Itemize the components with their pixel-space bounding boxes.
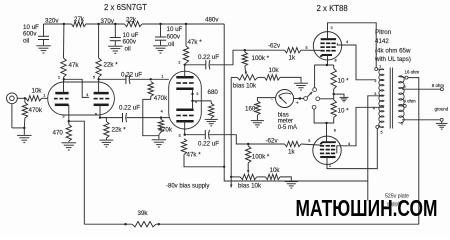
svg-text:10k: 10k xyxy=(269,67,280,74)
svg-text:5: 5 xyxy=(306,46,308,50)
svg-text:470: 470 xyxy=(53,129,64,136)
svg-text:100k *: 100k * xyxy=(252,55,270,62)
svg-text:22k *: 22k * xyxy=(112,127,127,134)
svg-text:8 ohm: 8 ohm xyxy=(432,83,445,88)
svg-text:oil: oil xyxy=(23,37,29,44)
svg-text:5: 5 xyxy=(308,139,310,143)
svg-text:1: 1 xyxy=(161,74,163,78)
svg-text:0.22 uF: 0.22 uF xyxy=(121,72,142,79)
svg-text:4 ohm: 4 ohm xyxy=(404,99,417,104)
svg-text:22k: 22k xyxy=(126,17,137,24)
svg-text:-62v: -62v xyxy=(268,43,281,50)
svg-text:47k *: 47k * xyxy=(188,39,203,46)
svg-text:6: 6 xyxy=(401,122,403,126)
svg-text:8: 8 xyxy=(334,129,336,133)
svg-text:with UL taps): with UL taps) xyxy=(374,56,411,63)
svg-text:3: 3 xyxy=(62,114,64,118)
svg-text:22k *: 22k * xyxy=(104,61,119,68)
svg-text:0-5 mA: 0-5 mA xyxy=(278,125,297,131)
svg-text:3: 3 xyxy=(374,92,376,96)
svg-text:10k: 10k xyxy=(32,88,43,95)
svg-text:4: 4 xyxy=(373,107,375,111)
svg-text:1: 1 xyxy=(43,93,45,97)
svg-text:370v: 370v xyxy=(101,18,115,25)
svg-text:oil: oil xyxy=(168,41,174,48)
svg-text:ground: ground xyxy=(435,106,449,111)
svg-text:2: 2 xyxy=(329,163,331,167)
svg-text:Pitron: Pitron xyxy=(375,29,392,36)
svg-text:2: 2 xyxy=(374,79,376,83)
svg-text:2 x 6SN7GT: 2 x 6SN7GT xyxy=(104,3,147,12)
svg-text:47k *: 47k * xyxy=(187,152,202,159)
svg-text:-62v: -62v xyxy=(266,138,279,145)
svg-text:480v: 480v xyxy=(205,16,219,23)
svg-text:-: - xyxy=(271,96,273,102)
svg-text:3: 3 xyxy=(196,92,198,96)
svg-text:meter: meter xyxy=(278,119,293,125)
svg-text:10k: 10k xyxy=(270,167,281,174)
svg-text:5: 5 xyxy=(179,134,181,138)
svg-text:bias 10k: bias 10k xyxy=(233,82,257,89)
svg-text:600v: 600v xyxy=(167,34,181,41)
svg-text:6: 6 xyxy=(95,112,97,116)
svg-text:27k: 27k xyxy=(74,16,85,23)
svg-text:2: 2 xyxy=(178,61,180,65)
svg-text:1k: 1k xyxy=(289,54,296,61)
svg-text:-80v bias supply: -80v bias supply xyxy=(166,183,209,189)
svg-text:0.22 uF: 0.22 uF xyxy=(119,105,140,112)
svg-text:2 x KT88: 2 x KT88 xyxy=(317,4,348,13)
svg-text:160: 160 xyxy=(245,106,256,113)
svg-text:0.22 uF: 0.22 uF xyxy=(198,141,219,148)
svg-text:0.22 uF: 0.22 uF xyxy=(198,54,219,61)
svg-text:10 uF: 10 uF xyxy=(167,26,183,33)
svg-text:8: 8 xyxy=(404,85,406,89)
svg-text:47k: 47k xyxy=(69,62,80,69)
svg-text:10 *: 10 * xyxy=(338,77,350,84)
svg-text:16 ohm: 16 ohm xyxy=(405,70,420,75)
svg-text:2: 2 xyxy=(58,75,60,79)
svg-text:1k: 1k xyxy=(288,148,295,155)
svg-text:5: 5 xyxy=(93,75,95,79)
svg-text:4: 4 xyxy=(161,110,163,114)
svg-text:3: 3 xyxy=(331,26,333,30)
svg-text:(4k ohm 65w: (4k ohm 65w xyxy=(375,47,411,54)
svg-text:10 *: 10 * xyxy=(338,107,350,114)
svg-text:oil: oil xyxy=(125,45,131,52)
svg-text:4: 4 xyxy=(86,93,88,97)
svg-text:39k: 39k xyxy=(138,210,149,217)
svg-text:470k: 470k xyxy=(154,95,168,102)
svg-text:470k: 470k xyxy=(29,107,43,114)
svg-text:680: 680 xyxy=(208,89,219,96)
svg-text:4: 4 xyxy=(346,40,348,44)
svg-text:100k *: 100k * xyxy=(252,153,270,160)
svg-text:4142: 4142 xyxy=(375,38,389,45)
svg-text:6: 6 xyxy=(195,100,197,104)
svg-text:1: 1 xyxy=(379,64,381,68)
svg-text:8: 8 xyxy=(335,59,337,63)
svg-text:bias 10k: bias 10k xyxy=(238,182,262,189)
svg-text:МАТЮШИН.СОМ: МАТЮШИН.СОМ xyxy=(296,195,438,221)
svg-text:4: 4 xyxy=(348,142,350,146)
svg-text:+: + xyxy=(296,101,299,107)
svg-text:5: 5 xyxy=(381,130,383,134)
svg-text:320v: 320v xyxy=(45,18,59,25)
